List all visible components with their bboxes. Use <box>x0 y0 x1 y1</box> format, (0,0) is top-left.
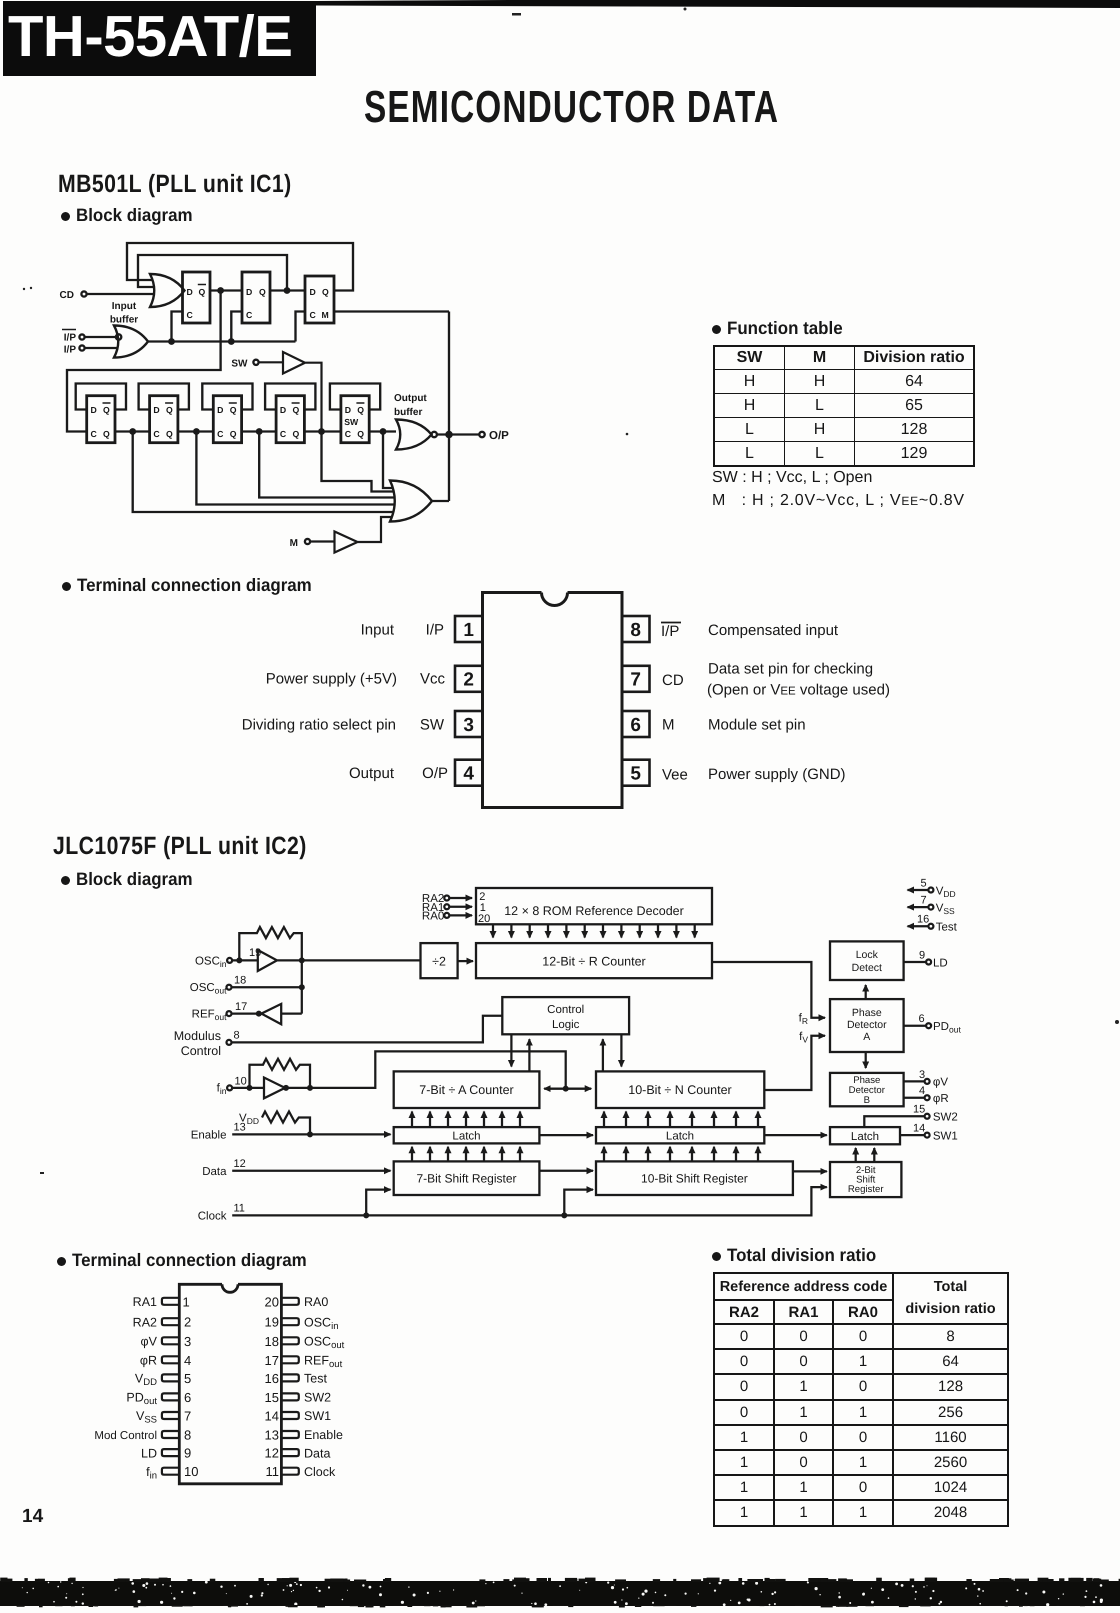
svg-text:D: D <box>91 405 97 415</box>
svg-text:Compensated input: Compensated input <box>708 622 839 639</box>
svg-text:20: 20 <box>478 913 490 925</box>
svg-text:φV: φV <box>933 1077 948 1089</box>
svg-text:Detector: Detector <box>847 1019 887 1031</box>
svg-text:REFout: REFout <box>192 1009 227 1023</box>
svg-text:Latch: Latch <box>666 1131 694 1143</box>
svg-text:8: 8 <box>630 620 641 641</box>
svg-text:buffer: buffer <box>110 315 138 326</box>
svg-text:8: 8 <box>184 1428 191 1443</box>
svg-text:C: C <box>280 429 287 439</box>
svg-text:1: 1 <box>183 1294 190 1309</box>
svg-text:15: 15 <box>913 1104 925 1116</box>
svg-text:Control: Control <box>547 1004 584 1016</box>
svg-text:1: 1 <box>463 620 474 641</box>
svg-text:7: 7 <box>921 895 927 907</box>
svg-text:10-Bit Shift Register: 10-Bit Shift Register <box>641 1172 748 1186</box>
svg-text:12-Bit ÷ R Counter: 12-Bit ÷ R Counter <box>542 955 645 969</box>
svg-text:19: 19 <box>265 1315 279 1330</box>
svg-text:11: 11 <box>266 1464 280 1479</box>
svg-text:fin: fin <box>146 1465 157 1482</box>
svg-text:D: D <box>187 287 193 297</box>
svg-text:16: 16 <box>917 914 929 926</box>
svg-text:D: D <box>246 287 252 297</box>
svg-text:C: C <box>91 429 98 439</box>
svg-text:D: D <box>280 405 286 415</box>
svg-text:Q: Q <box>103 429 110 439</box>
svg-text:VDD: VDD <box>936 886 956 900</box>
svg-text:SW1: SW1 <box>933 1131 958 1143</box>
svg-text:Vee: Vee <box>662 767 688 784</box>
svg-text:Clock: Clock <box>304 1465 336 1479</box>
svg-text:Latch: Latch <box>851 1131 879 1143</box>
svg-text:Enable: Enable <box>304 1428 343 1442</box>
svg-text:SW1: SW1 <box>304 1409 331 1423</box>
svg-text:Latch: Latch <box>452 1131 480 1143</box>
svg-text:Power supply (GND): Power supply (GND) <box>708 766 846 783</box>
svg-text:8: 8 <box>234 1030 240 1042</box>
svg-text:5: 5 <box>184 1371 191 1386</box>
svg-text:Phase: Phase <box>852 1007 882 1019</box>
svg-text:19: 19 <box>249 947 261 959</box>
svg-text:OSCout: OSCout <box>304 1335 345 1352</box>
svg-text:Enable: Enable <box>191 1130 227 1142</box>
svg-text:16: 16 <box>265 1371 279 1386</box>
svg-text:10: 10 <box>235 1076 247 1088</box>
svg-text:RA0: RA0 <box>422 911 444 923</box>
svg-text:Lock: Lock <box>856 949 879 961</box>
svg-text:4: 4 <box>184 1353 191 1368</box>
svg-text:Data: Data <box>304 1446 330 1460</box>
svg-text:4: 4 <box>463 764 474 785</box>
svg-text:PDout: PDout <box>126 1391 157 1408</box>
svg-text:7-Bit Shift Register: 7-Bit Shift Register <box>416 1172 516 1186</box>
svg-text:7: 7 <box>630 670 641 691</box>
svg-text:C: C <box>153 429 160 439</box>
svg-text:Register: Register <box>848 1184 885 1195</box>
svg-text:17: 17 <box>265 1353 279 1368</box>
svg-text:12: 12 <box>234 1158 246 1170</box>
svg-text:SW: SW <box>344 417 359 427</box>
svg-text:3: 3 <box>463 715 474 736</box>
svg-text:VSS: VSS <box>136 1409 157 1426</box>
svg-text:D: D <box>153 405 159 415</box>
svg-text:C: C <box>310 310 317 320</box>
svg-text:Vcc: Vcc <box>420 671 446 688</box>
svg-text:C: C <box>246 310 253 320</box>
svg-text:SW2: SW2 <box>304 1391 331 1405</box>
svg-text:Q: Q <box>357 429 364 439</box>
svg-text:REFout: REFout <box>304 1354 343 1371</box>
svg-text:Q: Q <box>293 405 300 415</box>
svg-text:CD: CD <box>662 672 684 689</box>
svg-text:D: D <box>345 405 351 415</box>
svg-text:Input: Input <box>112 301 137 312</box>
svg-text:Mod Control: Mod Control <box>94 1430 157 1442</box>
svg-text:7-Bit ÷ A Counter: 7-Bit ÷ A Counter <box>419 1083 513 1097</box>
svg-text:14: 14 <box>913 1123 925 1135</box>
svg-text:(Open or VEE voltage used): (Open or VEE voltage used) <box>707 682 890 699</box>
svg-text:9: 9 <box>919 950 925 962</box>
svg-text:C: C <box>187 310 194 320</box>
svg-text:φR: φR <box>933 1093 949 1105</box>
svg-text:6: 6 <box>630 715 641 736</box>
svg-text:15: 15 <box>265 1390 279 1405</box>
svg-text:Data: Data <box>202 1166 227 1178</box>
svg-text:Q: Q <box>199 287 206 297</box>
svg-text:18: 18 <box>265 1334 279 1349</box>
svg-text:I/P: I/P <box>661 623 679 640</box>
svg-text:D: D <box>310 287 316 297</box>
svg-text:Q: Q <box>259 287 266 297</box>
svg-text:3: 3 <box>184 1334 191 1349</box>
svg-text:Input: Input <box>361 622 395 639</box>
svg-text:M: M <box>322 310 329 320</box>
svg-text:2: 2 <box>184 1315 191 1330</box>
svg-text:Test: Test <box>936 922 958 934</box>
svg-text:Q: Q <box>166 429 173 439</box>
svg-text:Dividing ratio select pin: Dividing ratio select pin <box>242 717 396 734</box>
svg-text:17: 17 <box>235 1001 247 1013</box>
svg-text:÷2: ÷2 <box>432 955 446 969</box>
svg-text:Q: Q <box>230 405 237 415</box>
svg-text:M: M <box>662 717 675 734</box>
svg-text:Logic: Logic <box>552 1019 580 1031</box>
svg-text:12: 12 <box>265 1446 279 1461</box>
svg-text:I/P: I/P <box>64 333 77 344</box>
svg-text:O/P: O/P <box>422 765 448 782</box>
svg-text:LD: LD <box>933 958 948 970</box>
svg-text:Output: Output <box>394 393 427 404</box>
svg-text:6: 6 <box>184 1390 191 1405</box>
svg-text:5: 5 <box>630 764 641 785</box>
svg-text:C: C <box>345 429 352 439</box>
svg-text:O/P: O/P <box>489 430 509 442</box>
svg-text:10-Bit ÷ N Counter: 10-Bit ÷ N Counter <box>628 1083 731 1097</box>
svg-text:B: B <box>864 1095 870 1106</box>
svg-text:Q: Q <box>357 405 364 415</box>
svg-text:6: 6 <box>919 1013 925 1025</box>
svg-text:Q: Q <box>103 405 110 415</box>
svg-text:SW2: SW2 <box>933 1112 958 1124</box>
svg-text:φV: φV <box>141 1335 158 1349</box>
svg-text:PDout: PDout <box>933 1021 961 1035</box>
svg-text:Clock: Clock <box>198 1211 227 1223</box>
svg-text:I/P: I/P <box>64 345 77 356</box>
svg-text:Test: Test <box>304 1372 327 1386</box>
svg-text:Detect: Detect <box>852 962 882 974</box>
svg-text:fV: fV <box>799 1031 808 1045</box>
svg-text:D: D <box>217 405 223 415</box>
svg-text:fR: fR <box>799 1013 808 1027</box>
svg-text:RA0: RA0 <box>304 1295 328 1309</box>
svg-text:VSS: VSS <box>936 903 955 917</box>
svg-text:4: 4 <box>919 1085 925 1097</box>
svg-text:LD: LD <box>141 1446 157 1460</box>
svg-text:Module set pin: Module set pin <box>708 717 806 734</box>
svg-text:2: 2 <box>463 670 474 691</box>
svg-text:Control: Control <box>181 1044 221 1058</box>
svg-text:buffer: buffer <box>394 407 422 418</box>
svg-text:Q: Q <box>230 429 237 439</box>
svg-text:M: M <box>290 538 298 549</box>
svg-text:14: 14 <box>265 1409 279 1424</box>
svg-text:10: 10 <box>184 1464 198 1479</box>
svg-text:9: 9 <box>184 1446 191 1461</box>
svg-text:OSCout: OSCout <box>190 982 227 996</box>
svg-text:Q: Q <box>293 429 300 439</box>
svg-text:13: 13 <box>234 1122 246 1134</box>
svg-text:18: 18 <box>234 975 246 987</box>
svg-text:A: A <box>863 1031 870 1043</box>
svg-text:fin: fin <box>217 1083 227 1097</box>
svg-text:20: 20 <box>265 1294 279 1309</box>
svg-text:C: C <box>217 429 224 439</box>
svg-text:Power supply (+5V): Power supply (+5V) <box>266 671 397 688</box>
svg-text:OSCin: OSCin <box>195 956 227 970</box>
svg-text:RA2: RA2 <box>133 1315 157 1329</box>
svg-text:5: 5 <box>921 878 927 890</box>
svg-text:12 × 8 ROM Reference Decoder: 12 × 8 ROM Reference Decoder <box>504 904 684 918</box>
svg-text:Output: Output <box>349 765 395 782</box>
svg-text:Q: Q <box>322 287 329 297</box>
svg-text:SW: SW <box>231 359 248 370</box>
svg-text:CD: CD <box>60 290 74 301</box>
svg-text:RA1: RA1 <box>133 1295 157 1309</box>
svg-text:OSCin: OSCin <box>304 1315 339 1332</box>
svg-text:SW: SW <box>420 717 445 734</box>
svg-text:I/P: I/P <box>426 622 444 639</box>
svg-text:Data set pin for checking: Data set pin for checking <box>708 661 873 678</box>
svg-text:VDD: VDD <box>135 1372 157 1389</box>
svg-text:7: 7 <box>184 1409 191 1424</box>
svg-text:φR: φR <box>140 1354 157 1368</box>
svg-text:Q: Q <box>166 405 173 415</box>
svg-text:13: 13 <box>265 1428 279 1443</box>
svg-text:Modulus: Modulus <box>174 1029 221 1043</box>
svg-text:11: 11 <box>234 1203 245 1215</box>
svg-text:3: 3 <box>919 1069 925 1081</box>
